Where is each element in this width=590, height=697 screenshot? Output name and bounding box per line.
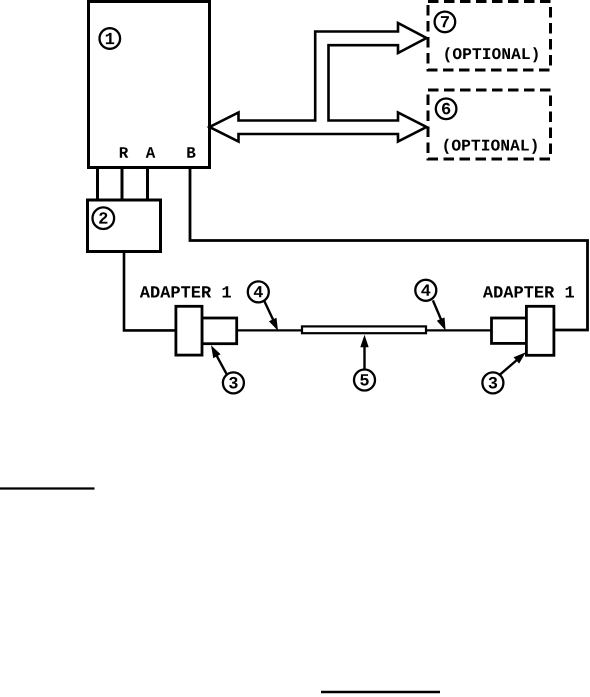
device under test bar 5	[302, 326, 426, 333]
wire stub R	[121, 166, 124, 201]
cable wire right segment	[426, 329, 492, 331]
leader arrow from 3 (left) to adapter	[214, 351, 227, 374]
callout circle 3 (left)	[223, 372, 244, 393]
label (OPTIONAL) box 7	[445, 47, 537, 62]
port label A	[146, 147, 156, 158]
optional box 7 (dashed)	[428, 2, 551, 71]
optional box 6 (dashed)	[428, 90, 551, 159]
wire stub A	[146, 166, 149, 201]
label (OPTIONAL) box 6	[444, 139, 536, 154]
callout circle 4 (right)	[415, 280, 436, 301]
wire stub 1 (leftmost, unlabeled)	[96, 166, 99, 201]
right adapter tall block	[526, 306, 554, 355]
cable wire left segment	[237, 329, 302, 331]
label ADAPTER 1 (right)	[483, 286, 574, 297]
left adapter tall block	[176, 306, 202, 355]
port label R	[120, 147, 129, 158]
callout circle 1	[100, 28, 121, 49]
callout circle 5	[354, 370, 375, 391]
label ADAPTER 1 (left)	[140, 286, 231, 297]
callout circle 7	[435, 12, 456, 33]
right adapter small block	[492, 318, 527, 343]
rule line bottom center	[321, 691, 440, 694]
rule line bottom left	[0, 487, 95, 489]
leader arrow from 5 to bar	[363, 341, 365, 370]
hollow branching arrow between box 1 and optional boxes	[210, 23, 427, 142]
callout circle 6	[436, 99, 457, 120]
wire from box 2 to left adapter	[124, 252, 177, 331]
wire from port B to right adapter	[190, 166, 588, 330]
callout circle 3 (right)	[482, 372, 503, 393]
callout circle 2	[93, 207, 115, 229]
leader arrow from 4 (left) to wire	[264, 301, 275, 325]
callout circle 4 (left)	[248, 281, 269, 302]
leader arrow from 4 (right) to wire	[433, 300, 443, 324]
port label B	[187, 147, 195, 158]
device box 2	[88, 200, 161, 252]
leader arrow from 3 (right) to adapter	[500, 356, 521, 374]
instrument box 1	[89, 2, 210, 168]
left adapter small block	[202, 318, 237, 344]
